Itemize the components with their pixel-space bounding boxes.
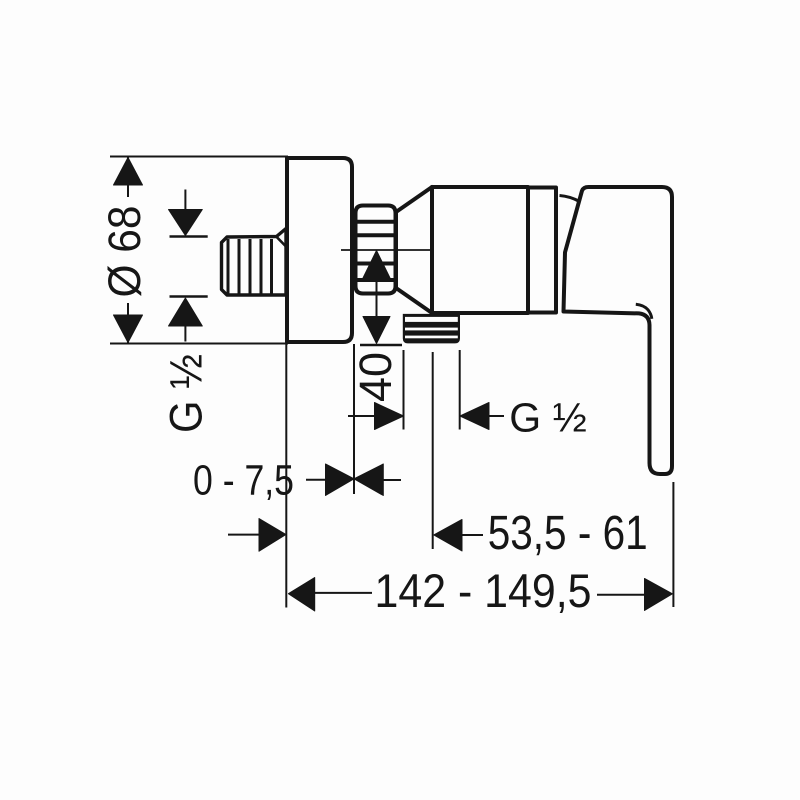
extension line top (escutcheon top plane) [110, 156, 288, 158]
outlet extension line left [403, 350, 405, 430]
dim G1/2 thread: tick bottom [170, 295, 208, 297]
dim G1/2 thread: arrow down [169, 210, 203, 236]
dim 53,5-61: arrow right at wall plane [259, 519, 286, 552]
threaded inlet connector G1/2 [222, 229, 287, 296]
lever pivot arc [560, 196, 580, 202]
outlet centerline extension [432, 352, 434, 549]
svg-text:0 - 7,5: 0 - 7,5 [193, 457, 294, 505]
dim G1/2 thread: tick top [170, 235, 208, 237]
dim 0-7,5: leader left [306, 479, 326, 481]
extension line bottom (escutcheon bottom plane) [110, 343, 288, 345]
outlet white band 2 [405, 328, 458, 331]
dim Ø68: arrow down [114, 315, 143, 343]
body ring [528, 188, 556, 313]
lever lip curve [636, 304, 652, 319]
dim 142-149,5: line left [315, 592, 372, 594]
dim Ø68: shaft top [127, 157, 129, 197]
svg-text:40: 40 [350, 352, 401, 402]
dim 0-7,5: leader right [382, 479, 401, 481]
nut divider lines [356, 220, 396, 224]
dim 142-149,5: arrow left [288, 578, 314, 612]
dim Ø68: arrow up [114, 158, 143, 186]
extension line handle end (right) [672, 482, 674, 607]
dim G1/2 outlet: arrow right [375, 403, 404, 430]
svg-text:Ø 68: Ø 68 [99, 206, 150, 298]
dim 40: arrow up to centerline [363, 251, 390, 279]
outlet extension line right [459, 350, 461, 430]
union nut [356, 206, 396, 294]
dim 40: arrow down [363, 317, 390, 344]
dim G1/2 thread: shaft below [184, 327, 186, 342]
svg-text:53,5 - 61: 53,5 - 61 [488, 507, 648, 560]
outlet white band 1 [405, 317, 458, 322]
thread stripes [227, 239, 274, 294]
outlet white band 3 [405, 336, 458, 339]
dim 40: shaft [376, 253, 378, 340]
dim 142-149,5: line right [597, 594, 646, 596]
escutcheon wall plate [287, 158, 352, 342]
dim 0-7,5: vertical line [353, 344, 355, 494]
centerline of valve axis [341, 249, 430, 251]
dim G1/2 outlet: leader left [348, 415, 376, 417]
dim 0-7,5: bowtie arrows [326, 464, 355, 496]
dim G1/2 thread: shaft above [184, 190, 186, 213]
dim 53,5-61: arrow left at outlet axis [434, 520, 462, 552]
valve body [432, 187, 528, 313]
dim 40: tick [360, 344, 402, 346]
dim 142-149,5: arrow right [645, 579, 673, 611]
outlet port G1/2 [403, 314, 460, 344]
dim Ø68: shaft bottom [127, 303, 129, 343]
svg-text:G ½: G ½ [161, 354, 212, 433]
dim G1/2 thread: arrow up [169, 298, 203, 326]
dim G1/2 outlet: leader right [489, 415, 504, 417]
svg-text:G ½: G ½ [509, 395, 586, 441]
dim 53,5-61: leader to text [462, 534, 483, 536]
cone adapter [396, 187, 432, 313]
dim 53,5-61: leader far left [228, 534, 259, 536]
handle with lever [564, 187, 673, 474]
svg-text:142 - 149,5: 142 - 149,5 [375, 564, 592, 617]
dim G1/2 outlet: arrow left [460, 403, 489, 430]
connector chamfer diagonal [277, 237, 286, 246]
extension line wall plane (left) [285, 344, 287, 608]
